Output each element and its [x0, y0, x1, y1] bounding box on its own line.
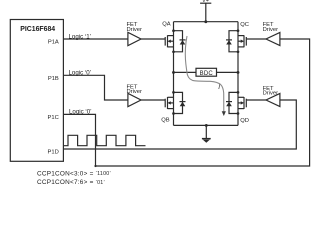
wire H-bridge left leg: [173, 22, 175, 126]
svg-text:QC: QC: [240, 22, 249, 28]
current path I arrow: [185, 36, 226, 116]
node V+ supply symbol: [200, 0, 211, 22]
ground symbol: [202, 125, 211, 142]
FET driver U5 (drives QD): [263, 86, 280, 107]
transistor QC with body diode: [226, 29, 246, 53]
wire U2 output to QA gate: [141, 38, 165, 40]
junction motor left: [172, 71, 175, 74]
wire motor rail: [174, 71, 239, 73]
wire P1C to FET driver U4 input (right side loop): [63, 39, 309, 166]
wire H-bridge right leg: [237, 22, 239, 126]
wire P1B to FET driver U3 input: [63, 75, 128, 100]
svg-text:I: I: [218, 84, 220, 91]
svg-text:P1C: P1C: [48, 115, 59, 121]
junction V+ on top rail: [204, 20, 207, 23]
svg-text:BDC: BDC: [200, 71, 214, 77]
PIC16F684 microcontroller U1: [10, 20, 63, 162]
svg-text:QD: QD: [240, 118, 249, 124]
svg-text:QB: QB: [161, 117, 170, 123]
svg-text:P1A: P1A: [48, 40, 59, 46]
wire U5 output to QD gate: [246, 99, 266, 101]
wire U4 output to QC gate: [246, 38, 266, 40]
svg-text:P1B: P1B: [48, 76, 59, 82]
svg-text:CCP1CON<7:6> = ‘01’: CCP1CON<7:6> = ‘01’: [37, 179, 105, 186]
wire P1D to FET driver U5 input (right side loop): [63, 100, 296, 149]
svg-text:Driver: Driver: [127, 27, 143, 33]
wire top rail: [174, 21, 239, 23]
FET driver U3 (drives QB): [127, 84, 143, 106]
transistor QD with body diode: [226, 91, 246, 115]
svg-text:Driver: Driver: [263, 27, 279, 33]
FET driver U4 (drives QC): [263, 22, 280, 45]
wire bottom rail: [174, 124, 239, 126]
svg-text:PIC16F684: PIC16F684: [20, 26, 55, 33]
svg-text:QA: QA: [162, 21, 171, 27]
FET driver U2 (drives QA): [127, 22, 143, 45]
junction P1C corner: [94, 165, 96, 167]
svg-text:CCP1CON<3:0> = ‘1100’: CCP1CON<3:0> = ‘1100’: [37, 171, 111, 178]
PWM waveform on P1D: [64, 135, 146, 145]
wire U3 output to QB gate: [141, 99, 165, 101]
svg-text:P1D: P1D: [48, 150, 59, 156]
transistor QB with body diode: [165, 91, 185, 115]
motor BDC: [196, 68, 217, 77]
transistor QA with body diode: [165, 29, 185, 53]
junction ground on bottom rail: [205, 124, 208, 127]
wire P1A to FET driver U2 input: [63, 38, 128, 40]
junction motor right: [237, 71, 240, 74]
